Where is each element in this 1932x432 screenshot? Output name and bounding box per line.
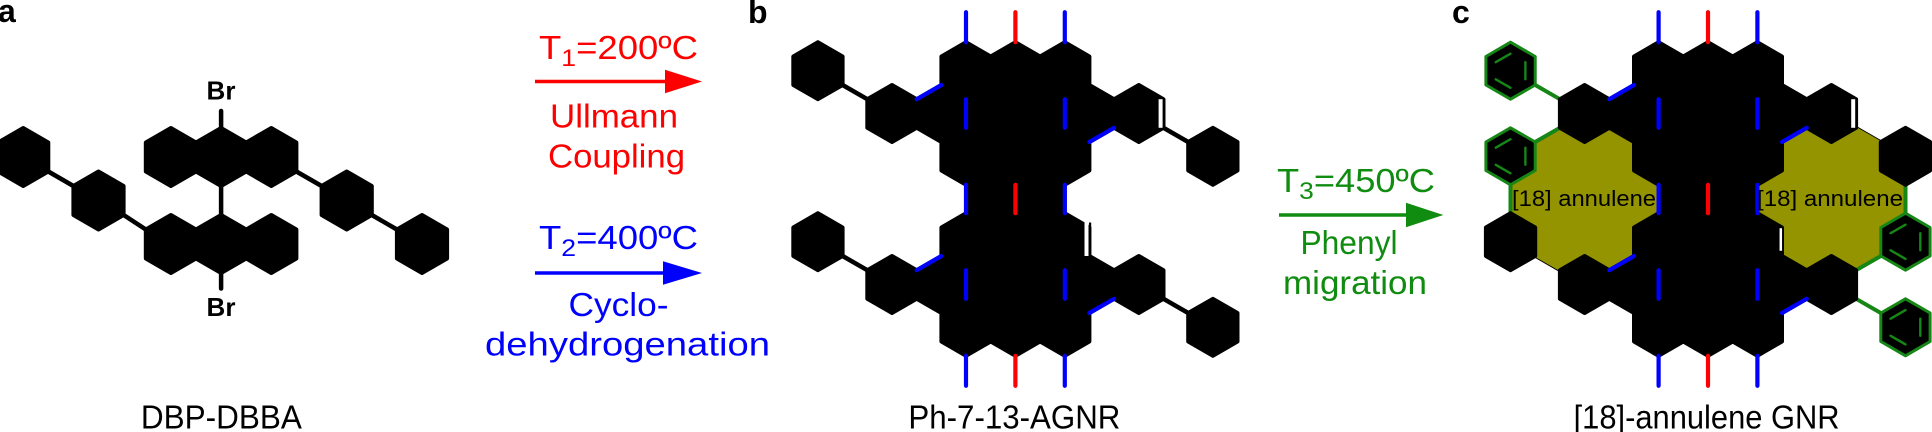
ring b C3 [1040,128,1089,185]
wire b white sliver B6 right [1159,99,1163,128]
bond c top tick blue [1755,12,1759,42]
bond b waist blue vertical [1063,185,1067,213]
bond a C-Br top [219,111,224,128]
svg-text:Br: Br [207,76,236,106]
bond b blue diagonal bottom-left [917,256,942,270]
bond a central biaryl [219,186,224,215]
ring b F1 [867,256,916,313]
arrow red T1 [535,80,668,83]
bond b TR chain [1164,128,1189,142]
arrow blue T2 [535,271,666,274]
ring a anthracene-bot 1 [146,215,196,273]
ring b G2 [991,299,1040,356]
ring b B5 [1065,85,1114,142]
svg-text:Cyclo-: Cyclo- [569,286,669,323]
ring b B1 [867,85,916,142]
bond c blue diagonal top-right [1782,128,1807,142]
node c left [18]annulene pore [1511,128,1659,270]
ring c F4 [1708,256,1757,313]
svg-text:[18]-annulene GNR: [18]-annulene GNR [1574,399,1840,432]
bond c rowF blue vertical [1656,270,1660,299]
bond a left chain 2 [124,215,146,230]
bond b top tick blue [1063,12,1067,42]
bond a C-Br bottom [219,273,224,289]
svg-text:b: b [748,0,768,30]
ring b E2 [991,213,1040,270]
ring c E3 [1733,213,1782,270]
ring c F6 [1807,256,1856,313]
bond b rowF blue vertical [1063,270,1067,299]
ring c green phenyl BR1 (green phenyl) [1881,299,1930,356]
ring c D1 [1659,171,1708,228]
bond c waist red vertical [1706,185,1710,213]
bond b waist red vertical [1013,185,1017,213]
svg-text:c: c [1452,0,1470,30]
ring b BL outer phenyl [793,213,842,270]
bond c top tick blue [1656,12,1660,42]
svg-text:Ullmann: Ullmann [550,98,678,135]
ring c B3 [1659,85,1708,142]
bond b rowB blue vertical [964,99,968,128]
ring a P3 [322,172,372,230]
bond a right chain 1 [296,172,321,187]
bond c bottom tick blue [1755,356,1759,386]
ring c B5 [1757,85,1806,142]
ring c D2 [1708,171,1757,228]
ring b F4 [1015,256,1064,313]
ring b B4 [1015,85,1064,142]
ring b A1 [941,42,990,99]
ring b B3 [966,85,1015,142]
bond c green bond BR2 [1856,256,1881,270]
bond b top tick blue [964,12,968,42]
bond c rowB blue vertical [1656,99,1660,128]
ring a anthracene-top 1 [146,128,196,186]
bond c waist blue vertical [1656,185,1660,213]
ring c B4 [1708,85,1757,142]
bond c green bond TL1 [1535,85,1560,99]
ring b G3 [1040,299,1089,356]
bond c rowB blue vertical [1755,99,1759,128]
svg-text:Br: Br [207,292,236,322]
bond b waist blue vertical [964,185,968,213]
svg-text:DBP-DBBA: DBP-DBBA [141,399,302,432]
ring a anthracene-bot 3 [246,215,296,273]
bond c bottom tick red [1706,356,1710,386]
ring c TR pendant phenyl [1881,128,1930,185]
ring a P4 [397,215,447,273]
ring a anthracene-top 2 [196,128,246,186]
bond c blue diagonal top-left [1609,85,1634,99]
ring b TR outer phenyl [1188,128,1237,185]
bond b BL chain [843,256,868,270]
ring b C1 [941,128,990,185]
bond b blue diagonal top-right [1089,128,1114,142]
wire c white sliver E3 right [1780,228,1783,251]
bond c bottom tick blue [1656,356,1660,386]
ring a anthracene-bot 2 [196,215,246,273]
ring b D2 [1015,171,1064,228]
svg-text:dehydrogenation: dehydrogenation [485,326,770,363]
ring c B6 [1807,85,1856,142]
ring c green phenyl TL2 (green phenyl) [1486,128,1535,185]
ring b B6 [1114,85,1163,142]
bond b bottom tick blue [1063,356,1067,386]
bond a left chain 1 [48,172,73,187]
bond b TL chain [843,85,868,99]
ring c C1 [1634,128,1683,185]
bond c green bond BR3 [1904,185,1908,213]
bond c waist blue vertical [1755,185,1759,213]
ring c F1 [1560,256,1609,313]
ring b F6 [1114,256,1163,313]
bond c green bond TL2 [1535,128,1560,142]
ring a anthracene-top 3 [246,128,296,186]
bond b BR chain [1164,299,1189,313]
ring b F3 [966,256,1015,313]
ring c A1 [1634,42,1683,99]
svg-text:Coupling: Coupling [548,138,685,175]
bond a right chain 2 [372,215,397,230]
ring b A2 [991,42,1040,99]
ring c C2 [1683,128,1732,185]
bond b rowB blue vertical [1063,99,1067,128]
bond c green bond BR1 [1856,299,1881,313]
ring b E3 [1040,213,1089,270]
node c right [18]annulene pore [1757,128,1905,270]
bond b rowF blue vertical [964,270,968,299]
svg-text:a: a [0,0,16,29]
bond c green bond TL3 [1509,185,1513,213]
ring c B1 [1560,85,1609,142]
ring c G1 [1634,299,1683,356]
ring c green phenyl BR2 (green phenyl) [1881,213,1930,270]
bond c rowF blue vertical [1755,270,1759,299]
bond b top tick red [1013,12,1017,42]
svg-text:Phenyl: Phenyl [1301,224,1398,261]
ring c G3 [1733,299,1782,356]
ring b F5 [1065,256,1114,313]
svg-text:migration: migration [1283,264,1427,301]
ring c B2 [1609,85,1658,142]
ring c F2 [1609,256,1658,313]
bond c blue diagonal bottom-right [1782,299,1807,313]
ring c A2 [1683,42,1732,99]
ring a P2 [73,172,123,230]
bond b blue diagonal bottom-right [1089,299,1114,313]
ring b F2 [917,256,966,313]
ring b A3 [1040,42,1089,99]
ring b C2 [991,128,1040,185]
ring c A3 [1733,42,1782,99]
bond b bottom tick red [1013,356,1017,386]
ring c F5 [1757,256,1806,313]
ring c BL pendant phenyl [1486,213,1535,270]
ring c green phenyl TL1 (green phenyl) [1486,42,1535,99]
ring c E2 [1683,213,1732,270]
ring b TL outer phenyl [793,42,842,99]
wire b white sliver E3 right [1085,223,1089,257]
ring c F3 [1659,256,1708,313]
ring c C3 [1733,128,1782,185]
bond b bottom tick blue [964,356,968,386]
ring b E1 [941,213,990,270]
ring b BR outer phenyl [1188,299,1237,356]
svg-text:[18] annulene: [18] annulene [1512,186,1656,211]
svg-text:Ph-7-13-AGNR: Ph-7-13-AGNR [908,399,1120,432]
ring a P1 [0,128,48,186]
ring b B2 [917,85,966,142]
bond c top tick red [1706,12,1710,42]
arrow green T3 [1279,213,1410,216]
ring c G2 [1683,299,1732,356]
ring b D1 [966,171,1015,228]
bond b blue diagonal top-left [917,85,942,99]
bond c blue diagonal bottom-left [1609,256,1634,270]
wire c white sliver B6 right [1851,99,1855,128]
ring c E1 [1634,213,1683,270]
svg-text:[18] annulene: [18] annulene [1757,186,1903,211]
ring b G1 [941,299,990,356]
